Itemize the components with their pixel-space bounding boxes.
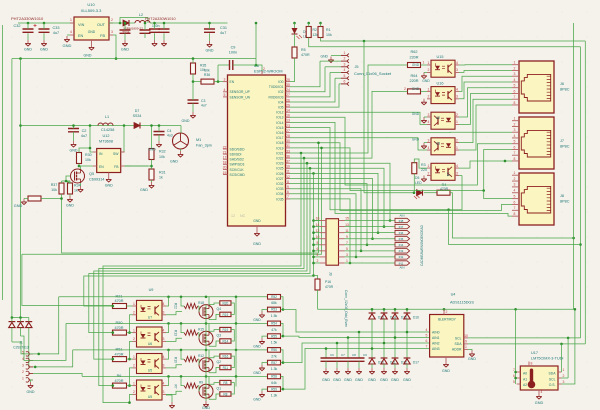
wire ain3 line: [283, 349, 430, 390]
wire esp IO21: [290, 65, 408, 153]
resistor R64: [404, 74, 430, 94]
ground pair2: [253, 365, 265, 376]
resistor R32: [149, 149, 166, 160]
wire rr3 link: [231, 383, 234, 394]
wire opto2 p3: [166, 365, 182, 368]
junction R33: [60, 197, 63, 200]
wire R34 bottom gnd: [69, 194, 71, 196]
ground C5: [161, 40, 167, 46]
wire zig in: [181, 350, 184, 359]
wire j3l stub 3: [314, 238, 321, 240]
wire diode0 col: [371, 309, 373, 313]
svg-text:U5: U5: [148, 395, 152, 399]
junction rail0b: [180, 296, 183, 299]
svg-text:20: 20: [223, 166, 227, 170]
resistor R56: [268, 348, 281, 359]
junction 364-41: [363, 40, 366, 43]
wire j3l stub 7: [314, 262, 321, 264]
led D6: [292, 28, 311, 39]
svg-text:3: 3: [456, 171, 458, 175]
svg-text:4: 4: [456, 61, 458, 65]
wire esp IOL5: [290, 128, 449, 210]
svg-text:1.3k: 1.3k: [271, 367, 278, 371]
junction C32: [27, 22, 30, 25]
svg-text:SDO/SDD: SDO/SDD: [230, 147, 246, 151]
wire 12V rail main: [21, 125, 182, 127]
wire j3r 6: [345, 256, 396, 258]
svg-text:IOL7: IOL7: [276, 136, 283, 140]
wire EN gnd: [67, 34, 70, 36]
wire u17 scl up: [567, 338, 569, 378]
junction j3l 6: [312, 256, 315, 259]
svg-text:R8: R8: [223, 392, 227, 396]
svg-text:470R: 470R: [325, 285, 334, 289]
wire r16 down: [317, 290, 319, 309]
wire Q5 drain: [79, 166, 81, 169]
transistor Q1: [199, 384, 221, 398]
svg-text:C6: C6: [330, 353, 334, 357]
svg-text:2: 2: [133, 337, 135, 341]
led D5: [414, 176, 423, 199]
wire diode0 mid: [371, 319, 373, 358]
wire esp IO2: [290, 67, 325, 92]
svg-text:3: 3: [224, 78, 226, 82]
wire R35 bot: [193, 74, 201, 82]
svg-text:IN6: IN6: [399, 231, 404, 235]
junction fan sup: [150, 124, 153, 127]
wire j3r 5: [345, 250, 396, 252]
svg-text:3: 3: [456, 68, 458, 72]
svg-text:33: 33: [286, 149, 290, 153]
svg-text:IO23: IO23: [276, 162, 283, 166]
wire diode2 mid: [394, 319, 396, 358]
ground diode1: [380, 368, 388, 382]
svg-text:4u7: 4u7: [53, 31, 59, 35]
wire opto1 p3: [166, 338, 182, 341]
resistor R34: [68, 183, 81, 194]
wire rr0 link: [231, 303, 234, 314]
wire FB net down-left: [113, 35, 116, 59]
svg-text:GND: GND: [88, 30, 96, 34]
wire FB out: [125, 165, 148, 167]
resistor R11 b: [220, 365, 231, 370]
wire esp IO5: [290, 84, 339, 107]
svg-text:6: 6: [287, 190, 289, 194]
diode D9: [123, 20, 144, 34]
junction alert node: [443, 308, 446, 311]
svg-text:C32: C32: [14, 24, 21, 28]
wire bundle1: [103, 153, 301, 403]
svg-text:R58: R58: [271, 375, 277, 379]
capacitor C30: [120, 23, 131, 40]
junction p3 tap: [34, 366, 37, 369]
wire U9 p2: [130, 394, 133, 402]
wire j3 branch 3: [290, 179, 373, 239]
svg-text:1: 1: [514, 61, 516, 65]
svg-text:U12: U12: [103, 134, 110, 138]
svg-text:R34: R34: [74, 184, 81, 188]
svg-text:GND: GND: [412, 63, 420, 67]
svg-text:IO21: IO21: [276, 151, 283, 155]
diode D12: [392, 358, 407, 365]
svg-text:IN2: IN2: [399, 255, 404, 259]
svg-text:R57: R57: [271, 361, 277, 365]
junction FB gnd: [115, 57, 118, 60]
junction rail0d: [235, 296, 238, 299]
svg-text:AIN: AIN: [399, 214, 404, 218]
junction diode2: [394, 336, 397, 339]
svg-text:GND: GND: [253, 242, 261, 246]
wire opto0 p4: [166, 297, 169, 306]
svg-text:GND: GND: [333, 378, 341, 382]
wire pair0 gnd: [262, 310, 268, 312]
svg-text:R52: R52: [271, 295, 277, 299]
svg-text:7: 7: [514, 151, 516, 155]
junction p5 tap: [37, 353, 40, 356]
wire gate node: [61, 181, 63, 183]
inductor L1: [98, 115, 113, 126]
svg-text:1: 1: [133, 382, 135, 386]
wire Q2 drain: [208, 350, 210, 358]
connector J7: [512, 117, 570, 170]
svg-text:J3: J3: [329, 272, 333, 276]
wire p16 jog: [314, 276, 318, 280]
svg-text:IOL2: IOL2: [276, 111, 283, 115]
svg-text:PHT2A330W1010: PHT2A330W1010: [11, 16, 44, 21]
svg-text:8P8C: 8P8C: [560, 200, 570, 204]
wire vert 364: [363, 41, 365, 193]
wire rr0 chain: [235, 297, 237, 323]
svg-text:10: 10: [286, 165, 290, 169]
wire j3l stub 1: [314, 226, 321, 228]
wire OUT: [109, 22, 123, 24]
svg-text:16: 16: [316, 217, 320, 221]
ground U2 p3: [412, 112, 427, 123]
svg-text:R30: R30: [85, 153, 92, 157]
svg-text:30: 30: [286, 139, 290, 143]
wire j3l stub 5: [314, 250, 321, 252]
svg-text:1: 1: [346, 259, 348, 263]
diode D14: [381, 313, 396, 320]
svg-text:1: 1: [514, 117, 516, 121]
svg-text:LM75CIMX-3-TUDI: LM75CIMX-3-TUDI: [531, 357, 564, 361]
junction 21-125: [19, 124, 22, 127]
resistor R5: [292, 47, 310, 58]
ground U10 EN: [63, 36, 72, 48]
svg-text:VIN: VIN: [78, 23, 85, 27]
svg-text:IO32: IO32: [276, 182, 283, 186]
wire R30 top: [79, 148, 90, 153]
wire ain1 line: [283, 336, 430, 337]
wire R2 net: [309, 38, 581, 47]
wire j3r 2: [345, 232, 396, 234]
svg-text:GND: GND: [403, 378, 411, 382]
svg-text:10k: 10k: [326, 33, 332, 37]
wire u17 os: [562, 309, 575, 384]
wire FB to div: [125, 165, 152, 167]
wire pair2 gnd: [262, 363, 268, 365]
connector J1: [13, 341, 33, 383]
wire Q3 gate: [198, 333, 200, 339]
wire zig in: [181, 323, 184, 332]
ground cap2: [344, 368, 352, 382]
wire cap0 drop: [325, 349, 327, 359]
label R10 rotated: [174, 357, 178, 363]
wire d2 j1: [21, 336, 34, 360]
module label U9: [149, 288, 154, 292]
wire U16p4-J6p3: [459, 76, 512, 91]
capacitor C7: [332, 353, 346, 368]
global label IN8: [395, 218, 410, 223]
wire j3r 4: [345, 244, 396, 246]
svg-text:64k: 64k: [271, 381, 277, 385]
svg-text:GND: GND: [14, 204, 23, 208]
wire sda: [468, 343, 585, 345]
wire opto4 gnd: [166, 395, 172, 402]
wire U15p3-J6p2: [459, 70, 512, 72]
wire ain0 line: [283, 310, 430, 333]
ground pair1: [253, 338, 265, 349]
junction diode1: [383, 342, 386, 345]
svg-text:IOL8: IOL8: [276, 141, 283, 145]
svg-text:10k: 10k: [51, 188, 57, 192]
ground R34: [66, 196, 74, 208]
junction q5 io18: [317, 142, 320, 145]
svg-text:A1: A1: [523, 377, 527, 381]
svg-text:6: 6: [514, 89, 516, 93]
svg-text:IN7: IN7: [399, 225, 404, 229]
svg-text:EN: EN: [78, 34, 84, 38]
ground R31: [140, 182, 154, 192]
junction j3 label 0: [389, 219, 392, 222]
svg-text:R16: R16: [222, 355, 228, 359]
wire J5 p4: [330, 72, 341, 74]
svg-text:GND: GND: [105, 184, 113, 188]
svg-text:R19: R19: [222, 328, 228, 332]
svg-text:EN: EN: [99, 165, 104, 169]
wire U12 IN: [90, 126, 93, 153]
wire D6 to R5: [294, 34, 296, 47]
svg-text:24: 24: [286, 88, 290, 92]
wire fan top: [180, 126, 182, 134]
resistor R59: [268, 387, 281, 398]
svg-text:SCL: SCL: [549, 377, 556, 381]
wire gate node2: [66, 181, 70, 183]
wire J5 p2: [320, 60, 341, 62]
wire rr3 left2: [209, 394, 220, 399]
junction R21: [112, 305, 115, 308]
junction rail1b: [180, 322, 183, 325]
wire cap2 drop: [347, 338, 349, 359]
svg-text:R37: R37: [51, 183, 58, 187]
resistor R30: [77, 153, 92, 164]
svg-text:CADMEAWENSNOEKDEAD: CADMEAWENSNOEKDEAD: [420, 224, 424, 266]
resistor R8: [220, 380, 231, 385]
svg-text:2: 2: [456, 139, 458, 143]
ground U15 p2: [412, 63, 427, 78]
wire vert 256: [255, 23, 257, 65]
wire R5 to IO0: [290, 58, 295, 82]
svg-text:100n: 100n: [152, 24, 160, 28]
wire diode3 mid: [406, 319, 408, 358]
svg-text:C7: C7: [341, 353, 345, 357]
svg-text:100n: 100n: [229, 51, 237, 55]
junction j3l 7: [312, 262, 315, 265]
wire R1 top: [320, 23, 322, 27]
svg-text:4: 4: [317, 253, 319, 257]
wire J8p5 branch: [484, 191, 512, 199]
svg-text:J5: J5: [355, 65, 359, 69]
svg-text:220: 220: [421, 168, 427, 172]
junction U6 p2: [128, 358, 131, 361]
resistor R53: [268, 307, 281, 318]
svg-text:1.5k: 1.5k: [271, 341, 278, 345]
svg-text:12: 12: [286, 175, 290, 179]
svg-text:R18: R18: [198, 301, 204, 305]
wire j3l stub 6: [314, 256, 321, 258]
svg-text:GND: GND: [63, 43, 72, 48]
svg-text:U15: U15: [437, 55, 444, 59]
svg-text:GND: GND: [40, 48, 48, 52]
svg-text:11: 11: [345, 229, 349, 233]
svg-text:470R: 470R: [114, 379, 123, 383]
svg-text:SHD/SD2: SHD/SD2: [230, 158, 244, 162]
ground C4: [148, 141, 162, 152]
wire rail vert right: [573, 23, 575, 309]
wire R37 bottom: [62, 194, 319, 253]
junction pair0: [282, 308, 285, 311]
svg-text:8: 8: [514, 212, 516, 216]
svg-text:C3: C3: [201, 99, 205, 103]
junction alert: [514, 308, 517, 311]
svg-text:R9: R9: [199, 381, 203, 385]
svg-text:8: 8: [531, 362, 533, 366]
svg-text:35: 35: [286, 83, 290, 87]
ground Q5: [78, 186, 84, 192]
svg-text:J8: J8: [560, 194, 564, 198]
wire ain2 line: [283, 343, 430, 363]
svg-text:GND: GND: [148, 148, 156, 152]
wire vert 5805: [580, 47, 582, 338]
svg-text:10k: 10k: [204, 69, 210, 73]
svg-text:SDA: SDA: [455, 342, 463, 346]
svg-text:SW: SW: [113, 152, 119, 156]
svg-text:2: 2: [22, 370, 24, 374]
svg-text:4u7: 4u7: [201, 104, 207, 108]
svg-text:MT3608: MT3608: [99, 140, 113, 144]
svg-text:IO35: IO35: [276, 197, 283, 201]
ground pair3: [253, 391, 265, 402]
wire esp IOL3: [290, 117, 512, 185]
svg-text:R20: R20: [222, 301, 228, 305]
wire U15 p2: [424, 71, 427, 73]
svg-text:3: 3: [22, 363, 24, 367]
connector J5: [341, 51, 392, 86]
resistor R9 zig: [184, 381, 203, 389]
ground opto4: [169, 402, 175, 408]
junction D5: [413, 191, 416, 194]
wire gate h: [62, 180, 71, 182]
svg-text:GND: GND: [253, 219, 261, 223]
resistor R51: [113, 348, 127, 362]
svg-text:GND: GND: [391, 378, 399, 382]
wire j1 p3 tap: [33, 350, 73, 367]
svg-text:12: 12: [231, 214, 235, 218]
resistor R12 zig: [184, 354, 204, 362]
svg-text:D17: D17: [413, 361, 419, 365]
wire rr1 left: [209, 330, 220, 332]
svg-text:13: 13: [286, 119, 290, 123]
global label IN1: [395, 261, 410, 266]
diode D1: [9, 318, 16, 343]
wire opto3 p3: [166, 391, 182, 394]
wire source chain: [205, 305, 207, 402]
junction rail2c: [205, 349, 208, 352]
svg-text:4: 4: [163, 302, 165, 306]
wire pair0 out: [281, 297, 284, 310]
wire diode rail: [12, 317, 29, 319]
wire rr0 left2: [209, 314, 220, 319]
svg-text:ADS1115DGS: ADS1115DGS: [450, 301, 474, 305]
junction R36 left: [192, 80, 195, 83]
wire esp IOL6: [290, 131, 512, 133]
wire R36 to EN: [214, 81, 223, 83]
svg-text:2: 2: [428, 68, 430, 72]
svg-text:2: 2: [514, 122, 516, 126]
svg-text:R19: R19: [222, 313, 228, 317]
svg-text:C2: C2: [82, 129, 87, 133]
optocoupler U2: [427, 112, 459, 129]
svg-text:36: 36: [286, 154, 290, 158]
junction U9 p2: [128, 401, 131, 404]
wire cap1 drop: [336, 343, 338, 358]
svg-text:14: 14: [316, 223, 320, 227]
svg-text:1: 1: [428, 164, 430, 168]
wire R3 bottom: [413, 174, 415, 193]
svg-text:470R: 470R: [114, 352, 123, 356]
global label IN5: [395, 237, 410, 242]
ground diode0: [368, 368, 376, 382]
wire diode to L2: [129, 22, 135, 24]
junction a0: [514, 371, 517, 374]
svg-text:SWP/SD3: SWP/SD3: [230, 163, 245, 167]
svg-text:IO5: IO5: [278, 106, 283, 110]
wire Q5 source gnd: [80, 183, 82, 186]
svg-text:GND: GND: [253, 371, 261, 375]
svg-text:ESP32-WROOM: ESP32-WROOM: [254, 70, 282, 74]
svg-text:6: 6: [426, 339, 428, 343]
capacitor C4: [154, 126, 173, 142]
svg-text:470R: 470R: [301, 53, 310, 57]
net label GND rail: [84, 54, 92, 58]
svg-text:1: 1: [514, 171, 516, 175]
wire j3l stub 2: [314, 232, 321, 234]
junction 5805: [579, 243, 582, 246]
svg-text:4: 4: [344, 68, 346, 72]
wire rr2 left2: [209, 368, 220, 373]
svg-text:11: 11: [286, 170, 290, 174]
wire fan supply: [151, 126, 153, 149]
svg-text:D16: D16: [413, 316, 419, 320]
wire pair2b: [22, 254, 113, 305]
svg-text:R56: R56: [271, 348, 277, 352]
wire R51 out: [127, 358, 133, 360]
svg-text:15: 15: [223, 171, 227, 175]
wire R62 to U15: [421, 64, 428, 66]
vdd pin U8 top: [262, 67, 265, 75]
resistor R35: [191, 63, 207, 74]
svg-text:R11: R11: [223, 366, 229, 370]
